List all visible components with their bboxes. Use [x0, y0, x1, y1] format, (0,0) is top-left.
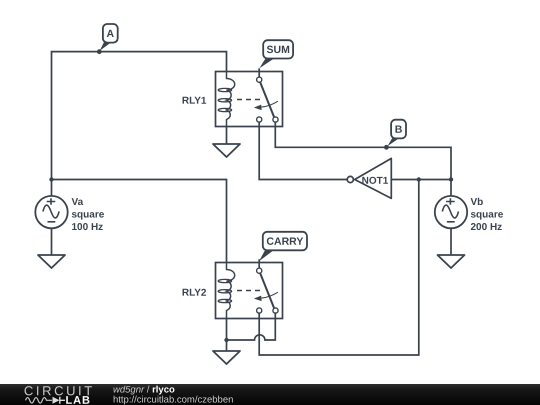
wire Vb bottom stub to ground — [450, 229, 452, 255]
footer bar — [0, 384, 540, 405]
svg-text:Va: Va — [71, 197, 83, 208]
svg-text:RLY1: RLY1 — [182, 96, 207, 107]
wire net A: top run from left vertical to RLY1 coil — [52, 52, 227, 180]
logo diode — [53, 397, 60, 404]
svg-text:LAB: LAB — [65, 395, 90, 405]
wire RLY2 coil bottom to ground — [226, 319, 228, 352]
svg-text:CARRY: CARRY — [266, 236, 303, 248]
value label Va — [71, 197, 104, 233]
relay RLY2 — [216, 259, 283, 318]
junction RLY2 ground — [224, 338, 228, 342]
ground under Vb — [438, 255, 465, 268]
svg-text:http://circuitlab.com/czebben: http://circuitlab.com/czebben — [113, 394, 233, 405]
value label Vb — [470, 197, 503, 233]
ground under RLY1 — [213, 144, 240, 157]
wire Va top stub — [51, 180, 53, 196]
ground under Va — [38, 255, 65, 268]
node label SUM — [259, 40, 293, 68]
logo squiggle wire — [26, 398, 53, 404]
wire RLY1 coil bottom to ground — [226, 127, 228, 145]
junction node B dot — [384, 145, 389, 150]
junction NOT1 input / RLY2 arm — [417, 177, 421, 181]
svg-text:A: A — [106, 28, 114, 40]
svg-text:Vb: Vb — [470, 197, 483, 208]
ground under RLY2 — [213, 351, 240, 364]
svg-text:square: square — [470, 209, 503, 220]
svg-text:200 Hz: 200 Hz — [470, 222, 502, 233]
node label CARRY — [259, 232, 307, 261]
svg-text:SUM: SUM — [267, 44, 291, 56]
wire Va+ to RLY2 coil top — [52, 180, 227, 263]
wire RLY2 right contact to ground junction with hop — [227, 319, 276, 341]
node label A — [100, 24, 118, 51]
wire RLY1 left contact to NOT1 output — [259, 127, 346, 180]
junction Va+ dot — [49, 177, 53, 181]
wire RLY2 left contact to NOT1 input junction — [259, 180, 419, 356]
node label B — [387, 120, 406, 147]
junction node A dot — [97, 49, 102, 54]
wire net B: RLY1 right contact to Vb+ — [275, 127, 451, 196]
junction NOT1 input / Vb — [449, 177, 453, 181]
voltage source V2 Vb — [435, 196, 467, 228]
relay RLY1 — [216, 68, 283, 126]
svg-text:RLY2: RLY2 — [182, 288, 207, 299]
svg-text:100 Hz: 100 Hz — [71, 222, 103, 233]
svg-text:B: B — [395, 124, 403, 136]
voltage source V1 Va — [35, 196, 67, 228]
svg-text:NOT1: NOT1 — [362, 176, 389, 187]
wire Va bottom stub to ground — [51, 228, 53, 255]
wire NOT1 input — [391, 179, 451, 181]
inverter U1 NOT1 — [347, 158, 391, 198]
svg-text:square: square — [71, 209, 104, 220]
